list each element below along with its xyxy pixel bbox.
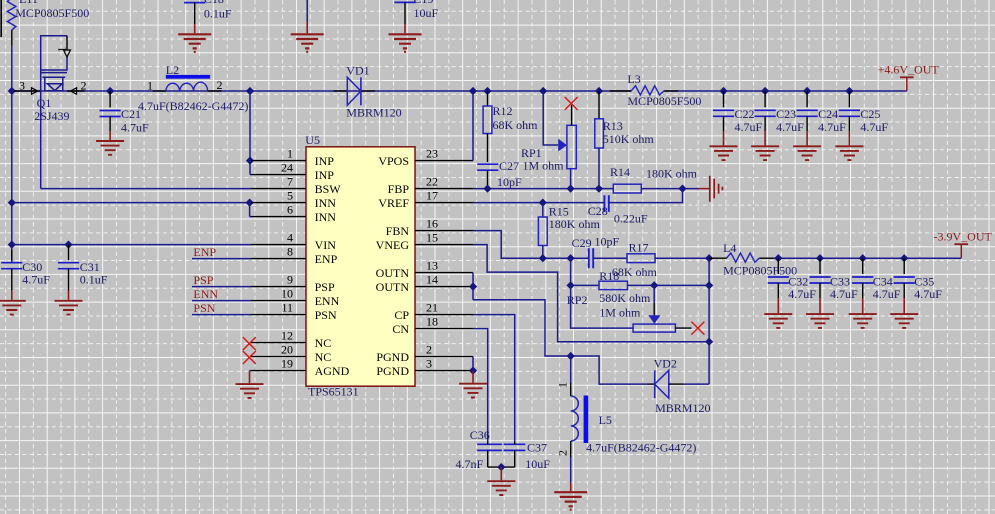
svg-text:OUTN: OUTN xyxy=(376,280,410,294)
potentiometer RP1 1M ohm xyxy=(570,169,572,189)
svg-text:AGND: AGND xyxy=(315,364,350,378)
IC U5 TPS65131 body xyxy=(306,147,415,386)
svg-text:24: 24 xyxy=(281,160,293,174)
svg-text:VD1: VD1 xyxy=(346,64,369,78)
svg-text:C18: C18 xyxy=(204,0,224,6)
svg-text:10uF: 10uF xyxy=(525,457,550,471)
wire VPOS to rail xyxy=(472,91,474,161)
capacitor C28 0.22uF xyxy=(604,195,608,212)
net label ENN wire xyxy=(192,300,251,302)
wire pins 1/24 tie xyxy=(249,91,251,175)
svg-text:510K ohm: 510K ohm xyxy=(603,132,655,146)
wire FBN row xyxy=(473,231,589,259)
resistor R14 xyxy=(613,184,641,193)
svg-text:VD2: VD2 xyxy=(654,356,677,370)
svg-text:4.7uF: 4.7uF xyxy=(860,120,888,134)
svg-text:2: 2 xyxy=(556,450,570,456)
svg-text:10pF: 10pF xyxy=(497,175,522,189)
svg-text:MCP0805F500: MCP0805F500 xyxy=(15,6,89,20)
pin 9 (PSP) left xyxy=(251,286,306,288)
svg-text:R12: R12 xyxy=(493,104,513,118)
pin 23 (VPOS) right xyxy=(415,160,473,162)
power port +4.6V_OUT xyxy=(906,77,908,91)
wire R18 row xyxy=(570,258,572,285)
svg-text:MCP0805F500: MCP0805F500 xyxy=(627,94,701,108)
capacitor C21 xyxy=(106,87,114,95)
svg-text:C25: C25 xyxy=(860,107,880,121)
pin 1 (INP) left xyxy=(251,160,306,162)
pin 20 (NC) left xyxy=(251,356,306,358)
svg-text:4.7uF: 4.7uF xyxy=(914,287,942,301)
capacitor C34 xyxy=(859,254,867,262)
svg-text:6: 6 xyxy=(287,202,293,216)
pin 3 of Q1 xyxy=(14,90,41,92)
svg-text:4.7nF: 4.7nF xyxy=(456,457,484,471)
svg-text:BSW: BSW xyxy=(315,182,342,196)
wire VIN row (pin 4) xyxy=(12,244,251,246)
svg-text:2: 2 xyxy=(81,79,87,93)
wire VREF row xyxy=(473,202,604,204)
svg-text:U5: U5 xyxy=(305,133,320,147)
svg-text:4.7uF: 4.7uF xyxy=(830,287,858,301)
pin 2 (PGND) right xyxy=(415,356,473,358)
svg-text:10pF: 10pF xyxy=(595,235,620,249)
capacitor C23 xyxy=(761,87,769,95)
capacitor C22 xyxy=(719,87,727,95)
pin 18 (CN) right xyxy=(415,328,473,330)
inductor L5 xyxy=(570,356,572,383)
net label ENP wire xyxy=(192,258,251,260)
pin 24 (INP) left xyxy=(251,174,306,176)
resistor R12 xyxy=(483,87,491,95)
svg-text:VREF: VREF xyxy=(378,196,409,210)
svg-text:FBP: FBP xyxy=(388,182,410,196)
svg-text:0.22uF: 0.22uF xyxy=(614,211,648,225)
capacitor C31 xyxy=(68,245,70,261)
svg-text:5: 5 xyxy=(287,188,293,202)
svg-text:FBN: FBN xyxy=(386,224,410,238)
transistor Q1 2SJ439 xyxy=(41,36,67,91)
svg-text:18: 18 xyxy=(426,314,438,328)
svg-text:1: 1 xyxy=(147,78,153,92)
svg-text:C36: C36 xyxy=(470,428,490,442)
capacitor C25 xyxy=(845,87,853,95)
svg-text:0.1uF: 0.1uF xyxy=(204,6,232,20)
svg-text:ENN: ENN xyxy=(193,287,218,301)
no-connect X at RP2 xyxy=(691,322,704,335)
svg-text:R14: R14 xyxy=(610,165,630,179)
svg-text:4: 4 xyxy=(287,230,293,244)
ground at AGND pin 19 xyxy=(250,370,252,372)
svg-text:+4.6V_OUT: +4.6V_OUT xyxy=(878,63,940,77)
svg-text:0.1uF: 0.1uF xyxy=(80,273,108,287)
pin 12 (NC) left xyxy=(251,342,306,344)
svg-text:15: 15 xyxy=(426,230,438,244)
pin 10 (ENN) left xyxy=(251,300,306,302)
ground PGND pins 2,3 xyxy=(472,357,474,371)
svg-text:3: 3 xyxy=(19,79,25,93)
svg-text:1M ohm: 1M ohm xyxy=(599,306,641,320)
inductor L4 (ferrite) xyxy=(709,257,727,259)
svg-text:L2: L2 xyxy=(166,63,179,77)
pin 2 of Q1 xyxy=(67,90,85,92)
svg-text:VPOS: VPOS xyxy=(378,154,409,168)
svg-text:-3.9V_OUT: -3.9V_OUT xyxy=(934,229,993,243)
no-connect X pin 20 xyxy=(243,351,256,364)
svg-text:4.7uF(B82462-G4472): 4.7uF(B82462-G4472) xyxy=(586,441,696,455)
wire OUTN route xyxy=(472,273,474,300)
svg-text:1M ohm: 1M ohm xyxy=(523,159,565,173)
potentiometer RP2 1M ohm xyxy=(653,285,655,303)
resistor R17 68K ohm xyxy=(593,257,627,259)
svg-text:CN: CN xyxy=(392,322,409,336)
capacitor C35 xyxy=(900,254,908,262)
svg-text:MCP0805F500: MCP0805F500 xyxy=(723,263,797,277)
pin 5 (INN) left xyxy=(251,202,306,204)
svg-text:4.7uF(B82462-G4472): 4.7uF(B82462-G4472) xyxy=(138,99,248,113)
pin 19 (AGND) left xyxy=(251,370,306,372)
svg-text:2: 2 xyxy=(426,342,432,356)
svg-text:R17: R17 xyxy=(629,240,649,254)
pin 17 (VREF) right xyxy=(415,202,473,204)
capacitor C36 4.7nF xyxy=(477,444,502,450)
svg-text:CP: CP xyxy=(394,308,409,322)
pin 21 (CP) right xyxy=(415,314,473,316)
svg-text:12: 12 xyxy=(281,328,293,342)
svg-text:L11: L11 xyxy=(19,0,38,6)
svg-text:C22: C22 xyxy=(735,107,755,121)
svg-text:L3: L3 xyxy=(627,72,640,86)
svg-text:MBRM120: MBRM120 xyxy=(655,401,710,415)
svg-text:580K ohm: 580K ohm xyxy=(599,291,651,305)
svg-text:C23: C23 xyxy=(776,107,796,121)
svg-text:1: 1 xyxy=(556,382,570,388)
inductor L2 xyxy=(153,90,166,92)
svg-text:PGND: PGND xyxy=(376,364,409,378)
svg-text:17: 17 xyxy=(426,188,438,202)
capacitor C24 xyxy=(803,87,811,95)
resistor R15 180K ohm xyxy=(542,203,544,217)
capacitor C32 xyxy=(774,254,782,262)
sheet border fragment xyxy=(0,0,2,37)
svg-text:180K ohm: 180K ohm xyxy=(549,217,601,231)
svg-text:ENP: ENP xyxy=(193,245,216,259)
wire VNEG route xyxy=(473,245,709,342)
svg-text:22: 22 xyxy=(426,174,438,188)
svg-text:ENP: ENP xyxy=(315,252,338,266)
svg-text:NC: NC xyxy=(315,336,332,350)
pin 7 (BSW) left xyxy=(251,188,306,190)
svg-text:19: 19 xyxy=(281,356,293,370)
svg-text:4.7uF: 4.7uF xyxy=(873,287,901,301)
svg-text:2: 2 xyxy=(217,78,223,92)
svg-text:MBRM120: MBRM120 xyxy=(346,106,401,120)
svg-text:4.7uF: 4.7uF xyxy=(776,120,804,134)
svg-text:L4: L4 xyxy=(723,241,736,255)
svg-text:PGND: PGND xyxy=(376,350,409,364)
svg-text:NC: NC xyxy=(315,350,332,364)
pin 16 (FBN) right xyxy=(415,230,473,232)
capacitor C27 xyxy=(487,134,489,163)
inductor L11 xyxy=(7,0,15,30)
svg-text:PSP: PSP xyxy=(315,280,335,294)
svg-text:2SJ439: 2SJ439 xyxy=(34,109,69,123)
capacitor C37 10uF xyxy=(504,444,526,450)
svg-text:INN: INN xyxy=(315,210,337,224)
svg-text:TPS65131: TPS65131 xyxy=(308,385,359,399)
capacitor C33 xyxy=(816,254,824,262)
svg-text:68K ohm: 68K ohm xyxy=(493,118,539,132)
svg-text:C37: C37 xyxy=(527,441,547,455)
svg-text:4.7uF: 4.7uF xyxy=(121,121,149,135)
svg-text:ENN: ENN xyxy=(315,294,340,308)
svg-text:21: 21 xyxy=(426,300,438,314)
svg-text:4.7uF: 4.7uF xyxy=(22,273,50,287)
svg-text:INN: INN xyxy=(315,196,337,210)
wire L11 to rail and down left xyxy=(11,45,13,91)
wire FBP row xyxy=(473,188,613,190)
svg-text:VIN: VIN xyxy=(315,238,337,252)
svg-text:11: 11 xyxy=(281,300,293,314)
svg-text:16: 16 xyxy=(426,216,438,230)
svg-text:4.7uF: 4.7uF xyxy=(788,287,816,301)
net label PSN wire xyxy=(192,314,251,316)
svg-text:C27: C27 xyxy=(499,159,519,173)
pin 4 (VIN) left xyxy=(251,244,306,246)
ground stub net xyxy=(306,0,308,22)
svg-text:9: 9 xyxy=(287,272,293,286)
resistor R18 580K ohm xyxy=(599,281,628,289)
svg-text:10uF: 10uF xyxy=(414,6,439,20)
capacitor C29 10pF xyxy=(589,248,593,268)
wire right column vertical xyxy=(708,258,710,384)
pin 11 (PSN) left xyxy=(251,314,306,316)
svg-text:Q1: Q1 xyxy=(37,96,52,110)
pin 6 (INN) left xyxy=(251,216,306,218)
svg-text:14: 14 xyxy=(426,272,438,286)
svg-text:13: 13 xyxy=(426,258,438,272)
svg-text:INP: INP xyxy=(315,154,335,168)
wire BSW vertical from Q1 xyxy=(40,70,42,189)
svg-text:PSN: PSN xyxy=(193,301,215,315)
diode VD1 MBRM120 xyxy=(333,90,347,92)
wire CP to C37 xyxy=(473,315,515,442)
svg-text:PSP: PSP xyxy=(193,273,213,287)
svg-text:PSN: PSN xyxy=(315,308,337,322)
no-connect X pin 12 xyxy=(243,337,256,350)
svg-text:3: 3 xyxy=(426,356,432,370)
capacitor C18 xyxy=(184,0,205,3)
pin 15 (VNEG) right xyxy=(415,244,473,246)
svg-text:C29: C29 xyxy=(572,236,592,250)
svg-text:20: 20 xyxy=(281,342,293,356)
svg-text:4.7uF: 4.7uF xyxy=(735,120,763,134)
svg-text:C28: C28 xyxy=(588,204,608,218)
svg-text:7: 7 xyxy=(287,174,293,188)
svg-text:R18: R18 xyxy=(599,269,619,283)
svg-text:10: 10 xyxy=(281,286,293,300)
diode VD2 MBRM120 xyxy=(647,383,655,385)
pin 3 (PGND) right xyxy=(415,370,473,372)
resistor R13 510K ohm xyxy=(595,87,603,95)
svg-text:VNEG: VNEG xyxy=(376,238,410,252)
svg-text:INP: INP xyxy=(315,168,335,182)
svg-text:8: 8 xyxy=(287,244,293,258)
wire main positive rail xyxy=(12,90,632,92)
capacitor C30 xyxy=(11,250,13,260)
wire INN row (pins 5,6) xyxy=(12,202,250,204)
svg-text:1: 1 xyxy=(55,47,69,53)
svg-text:180K ohm: 180K ohm xyxy=(646,167,698,181)
svg-text:C24: C24 xyxy=(818,107,838,121)
power port -3.9V_OUT xyxy=(960,244,962,258)
power ground right symbol xyxy=(697,188,710,190)
svg-text:L5: L5 xyxy=(599,413,612,427)
wire CN to C36 xyxy=(473,329,488,442)
net label PSP wire xyxy=(192,286,251,288)
ground C36/C37 xyxy=(488,466,515,468)
pin 14 (OUTN) right xyxy=(415,286,473,288)
pin 13 (OUTN) right xyxy=(415,272,473,274)
svg-text:OUTN: OUTN xyxy=(376,266,410,280)
capacitor C19 xyxy=(394,0,415,2)
inductor L3 (ferrite) xyxy=(610,90,632,92)
svg-text:1: 1 xyxy=(287,146,293,160)
pin 22 (FBP) right xyxy=(415,188,473,190)
svg-text:4.7uF: 4.7uF xyxy=(818,120,846,134)
pin 8 (ENP) left xyxy=(251,258,306,260)
svg-text:23: 23 xyxy=(426,146,438,160)
